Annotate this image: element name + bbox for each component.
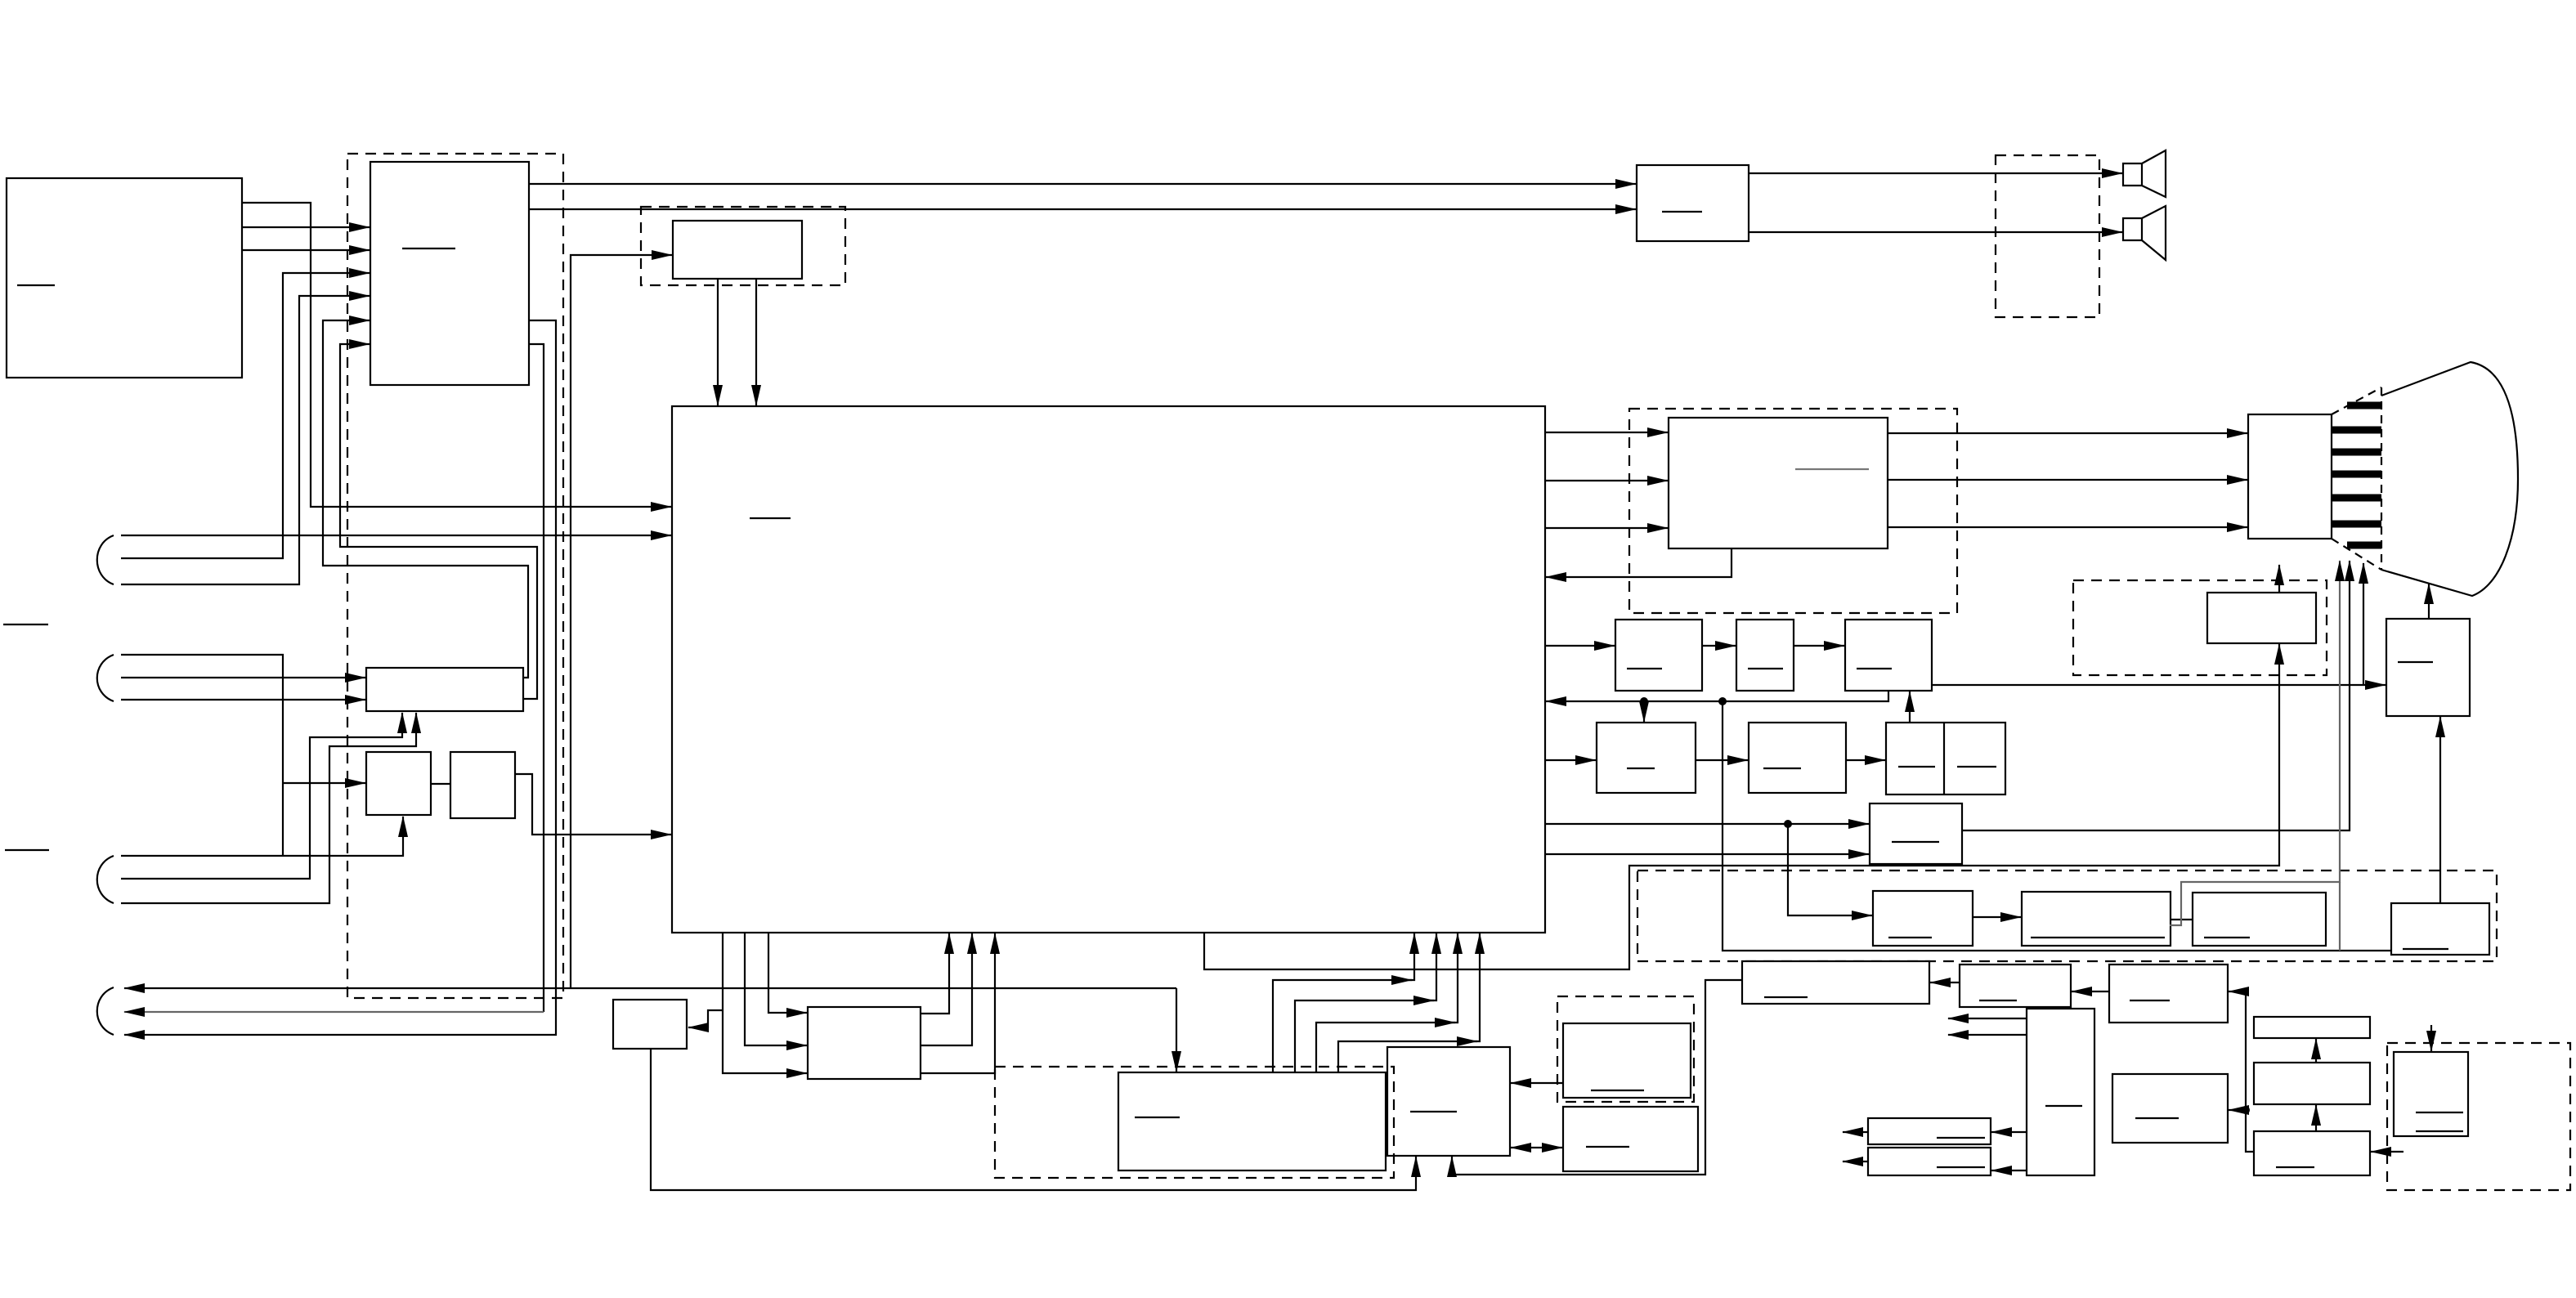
wire central to box7 in2 <box>1545 853 1869 855</box>
wire stub into PSU top <box>2430 1025 2432 1051</box>
wire K2 line2 to box6 <box>121 677 365 678</box>
row2 box R2b <box>1749 723 1846 793</box>
junction dot on feedback line at R2a branch <box>1640 697 1648 705</box>
left margin label line 2 <box>5 849 49 851</box>
wire AV out2 to tuner <box>242 226 370 228</box>
wire tuner audio out1 to amp <box>529 183 1636 185</box>
box21 <box>1960 965 2071 1007</box>
video out box <box>2386 619 2470 716</box>
wire tuner out b to connector K4 line2 (gray) <box>529 344 544 1012</box>
central jungle IC box <box>672 406 1545 933</box>
dashed D8 vertical deflection <box>995 1067 1394 1178</box>
wire IF box down to central 2 <box>755 279 757 405</box>
wire central to R2a <box>1545 759 1596 761</box>
wire box35 bottom to micro <box>651 1049 1416 1190</box>
wire video out up to CRT <box>2428 584 2430 619</box>
wire K1 line1 to central <box>121 535 671 536</box>
box33 <box>1118 1072 1386 1170</box>
wire branch to box25 <box>2229 1109 2246 1111</box>
small box B <box>450 752 515 818</box>
wire junction down to box8 <box>1788 824 1872 915</box>
wire R2b to pair <box>1846 759 1885 761</box>
wire St1 out <box>1843 1131 1868 1133</box>
left IF/audio box6 <box>366 668 523 711</box>
wire junction to R2a top <box>1643 701 1645 722</box>
wire AV out1 to central <box>242 203 671 507</box>
wire amp out1 to speaker1 <box>1749 172 2122 174</box>
wire sync out3 up to central <box>921 933 995 1073</box>
band box4 <box>2391 903 2489 955</box>
wire central to chroma in1 <box>1545 432 1668 433</box>
junction dot on feedback line at band bus branch <box>1718 697 1727 705</box>
wire sync out1 up to central <box>921 933 949 1014</box>
audio amp label line <box>1662 211 1702 213</box>
dashed band D6 <box>1637 871 2497 961</box>
central box label line <box>750 517 791 519</box>
wire K2 line3 to box6 <box>121 699 365 700</box>
speaker 2 <box>2123 206 2166 260</box>
RGB amp row box R1b <box>1736 620 1794 691</box>
box31 <box>1563 1023 1691 1098</box>
wire gray band box2 to CRT <box>2170 561 2340 925</box>
row2 pair box <box>1886 723 2005 794</box>
connector K4 arc <box>97 987 114 1035</box>
wire chroma to yoke B <box>1888 526 2247 528</box>
focus box <box>2207 593 2316 643</box>
wire box33 to central 3 <box>1316 1023 1455 1072</box>
CRT neck dashed flare <box>2332 387 2381 570</box>
stacked box St1 <box>1868 1118 1991 1144</box>
wire tallbox to St1 <box>1991 1131 2027 1133</box>
wire chroma to yoke R <box>1888 432 2247 434</box>
wire central bottom to sync in2 <box>745 933 807 1045</box>
CRT yoke box <box>2248 414 2332 539</box>
wire sync out2 up to central <box>921 933 972 1045</box>
wire box8 to band box2 <box>1973 916 2021 918</box>
speaker 1 <box>2123 150 2166 197</box>
wire micro to box32 double arrow <box>1511 1147 1562 1148</box>
tuner label line <box>402 248 455 249</box>
row2 box R2a <box>1597 723 1696 793</box>
wire TC left to box22 via vertical <box>2229 991 2254 1152</box>
dashed enclosure D1 tuner/IF <box>347 154 563 998</box>
thin box TA <box>2254 1017 2370 1038</box>
RGB amp row box R1c <box>1845 620 1932 691</box>
wire central bottom to sync in1 <box>768 933 807 1013</box>
sync box <box>808 1007 921 1079</box>
box32 <box>1563 1107 1698 1171</box>
wire tallbox to St2 <box>1991 1170 2027 1171</box>
wire bus to connector K4 line1 and down to box33 <box>124 987 1176 989</box>
wire AV out3 to tuner <box>242 249 370 251</box>
dashed D7 <box>1557 996 1694 1102</box>
connector K3 arc <box>97 856 114 903</box>
wire central to chroma in3 <box>1545 527 1668 529</box>
wire R1a to R1b <box>1702 645 1736 647</box>
wire TB up to TA <box>2315 1039 2317 1063</box>
junction dot on boxTC riser at box25 branch <box>2242 1106 2250 1114</box>
wire IF box down to central 1 <box>717 279 719 405</box>
wire loop box6 out1 to tuner in5 <box>323 320 528 678</box>
wire box21 to widebox <box>1930 982 1960 983</box>
wire K3 line1 to boxA bottom <box>121 817 403 856</box>
tall box <box>2027 1009 2094 1175</box>
wire box31 to micro <box>1511 1082 1563 1084</box>
RGB amp row box R1a <box>1615 620 1702 691</box>
wire box33 to central 1 <box>1273 980 1412 1072</box>
wire R2a to R2b <box>1696 759 1748 761</box>
small box A <box>366 752 431 815</box>
box8 <box>1873 891 1973 946</box>
band box3 <box>2193 893 2326 946</box>
wire box33 to central 2 <box>1295 1000 1434 1072</box>
dashed PSU enclosure D9 <box>2387 1043 2570 1190</box>
wire central notch to focus box <box>1204 644 2279 969</box>
wire loop box6 out2 to tuner in6 <box>340 344 537 699</box>
dashed enclosure D2 IF <box>641 207 845 285</box>
wire chroma to yoke G <box>1888 479 2247 481</box>
box7 <box>1870 803 1962 864</box>
wire central to chroma in2 <box>1545 480 1668 481</box>
wire K1 line2 to tuner <box>121 273 370 558</box>
wire K1 line3 to tuner <box>121 296 370 584</box>
box TC <box>2254 1131 2370 1175</box>
dashed speaker enclosure D4 <box>1996 155 2099 317</box>
AV input box <box>7 178 242 378</box>
wire TC up to TB <box>2315 1105 2317 1131</box>
wire IF feed from bus <box>571 255 672 988</box>
wire band box2 to box3 link <box>2171 919 2193 920</box>
wire PSU region to TC <box>2371 1151 2404 1153</box>
wire K3 line2 to box6 bottom <box>121 713 402 879</box>
wire central to R1a <box>1545 645 1615 647</box>
wire central bottom to sync in3 <box>723 933 807 1073</box>
chroma box <box>1669 418 1888 548</box>
wire box22 to box21 <box>2072 991 2109 992</box>
wire box7 out to CRT <box>1962 561 2350 830</box>
wire R1c to video out <box>1932 684 2386 686</box>
wire tuner audio out2 to amp <box>529 208 1636 210</box>
wire into boxA left <box>283 782 365 784</box>
AV box label line <box>17 284 55 286</box>
connector K1 arc <box>97 535 114 584</box>
wire central to box7 in1 <box>1545 823 1869 825</box>
wire feedback line y858 to central <box>1546 691 1888 701</box>
wire pair up to R1c <box>1909 692 1911 723</box>
junction dot on box7 line at box8 branch <box>1784 820 1792 828</box>
wire boxA to boxB <box>431 783 450 785</box>
wire tallbox out2 <box>1948 1034 2027 1036</box>
audio amp box <box>1637 165 1749 241</box>
CRT deflection bars <box>2332 405 2381 545</box>
chroma label line <box>1795 468 1869 470</box>
wire band box4 up to video out <box>2439 717 2441 903</box>
box25 <box>2112 1074 2228 1143</box>
wide H-drive box <box>1742 961 1929 1004</box>
dashed focus enclosure D5 <box>2073 580 2327 675</box>
wire box33 to central 4 <box>1338 1041 1477 1072</box>
connector K2 arc <box>97 655 114 701</box>
wire widebox to micro bottom <box>1452 980 1742 1175</box>
wire amp out2 to speaker2 <box>1749 231 2122 233</box>
tuner box <box>370 162 529 385</box>
box35 <box>613 1000 687 1049</box>
wire R1b to R1c <box>1794 645 1844 647</box>
IF box <box>673 221 802 279</box>
micro box <box>1387 1047 1510 1156</box>
wire St2 out <box>1843 1161 1868 1162</box>
wire boxB out to central <box>515 774 671 835</box>
wire K3 line3 to box6 bottom <box>121 713 416 903</box>
left margin label line 1 <box>3 624 48 625</box>
wire chroma feedback to central <box>1546 548 1732 577</box>
wire K2 line1 down <box>121 655 283 856</box>
box TB <box>2254 1063 2370 1104</box>
wire focus box up <box>2278 565 2280 593</box>
wire junction down to band bus <box>1723 701 2391 951</box>
band box2 <box>2022 892 2171 946</box>
stacked box St2 <box>1868 1148 1991 1175</box>
wire tallbox out1 <box>1948 1018 2027 1019</box>
wire branch to box35 <box>688 1010 723 1027</box>
wire tuner out a to connector K4 line3 <box>124 320 556 1035</box>
box22 <box>2109 965 2228 1023</box>
wire y838 branch up to CRT <box>2363 563 2364 685</box>
CRT bell <box>2381 362 2518 596</box>
dashed enclosure D3 chroma <box>1629 409 1957 613</box>
PSU box <box>2394 1052 2468 1136</box>
